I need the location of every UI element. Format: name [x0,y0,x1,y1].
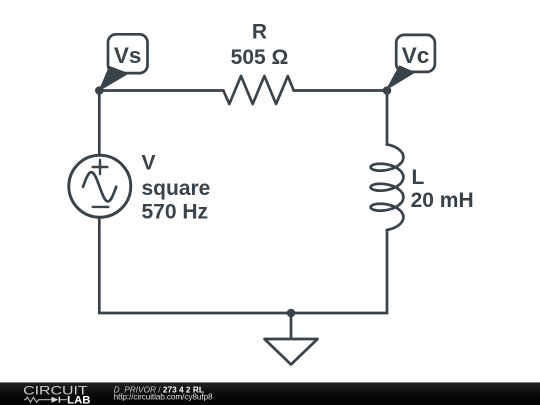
node dot Vs [95,86,104,95]
logo resistor zigzag [24,397,41,402]
logo wire middle [41,399,52,401]
svg-text:L: L [412,166,425,189]
wire right rail upper [386,91,389,145]
wire bottom horizontal [99,312,387,315]
svg-text:square: square [142,177,211,200]
node label box Vs [108,34,148,73]
logo diode bar [58,397,60,403]
logo wire to LAB [60,399,67,401]
wire top-right horizontal [294,89,387,92]
ground triangle [265,339,318,365]
wire left rail lower [98,217,101,313]
logo diode triangle [52,397,59,403]
voltage source minus sign [93,206,109,208]
node dot ground junction [287,309,296,318]
ground stub wire [290,313,293,339]
voltage source sine wave [83,172,116,201]
svg-text:http://circuitlab.com/cy8ufp8: http://circuitlab.com/cy8ufp8 [114,392,213,402]
svg-text:Vc: Vc [402,43,430,68]
pointer wedge Vc [387,66,415,90]
svg-text:20 mH: 20 mH [411,189,474,212]
wire left rail upper [98,91,101,156]
svg-text:505 Ω: 505 Ω [231,46,289,69]
svg-text:Vs: Vs [114,43,142,68]
node dot Vc [383,86,392,95]
voltage source V1 circle [69,155,131,217]
wire right rail lower [386,230,389,313]
svg-text:LAB: LAB [67,394,91,405]
svg-text:570 Hz: 570 Hz [142,201,209,224]
inductor L1 coil [371,144,404,230]
svg-text:V: V [142,151,156,174]
resistor R1 zigzag [223,76,293,104]
footer bar background [0,382,540,405]
wire top-left horizontal [99,89,223,92]
node label box Vc [396,35,435,72]
svg-text:R: R [252,21,267,44]
pointer wedge Vs [99,67,128,91]
voltage source plus sign [93,160,108,174]
